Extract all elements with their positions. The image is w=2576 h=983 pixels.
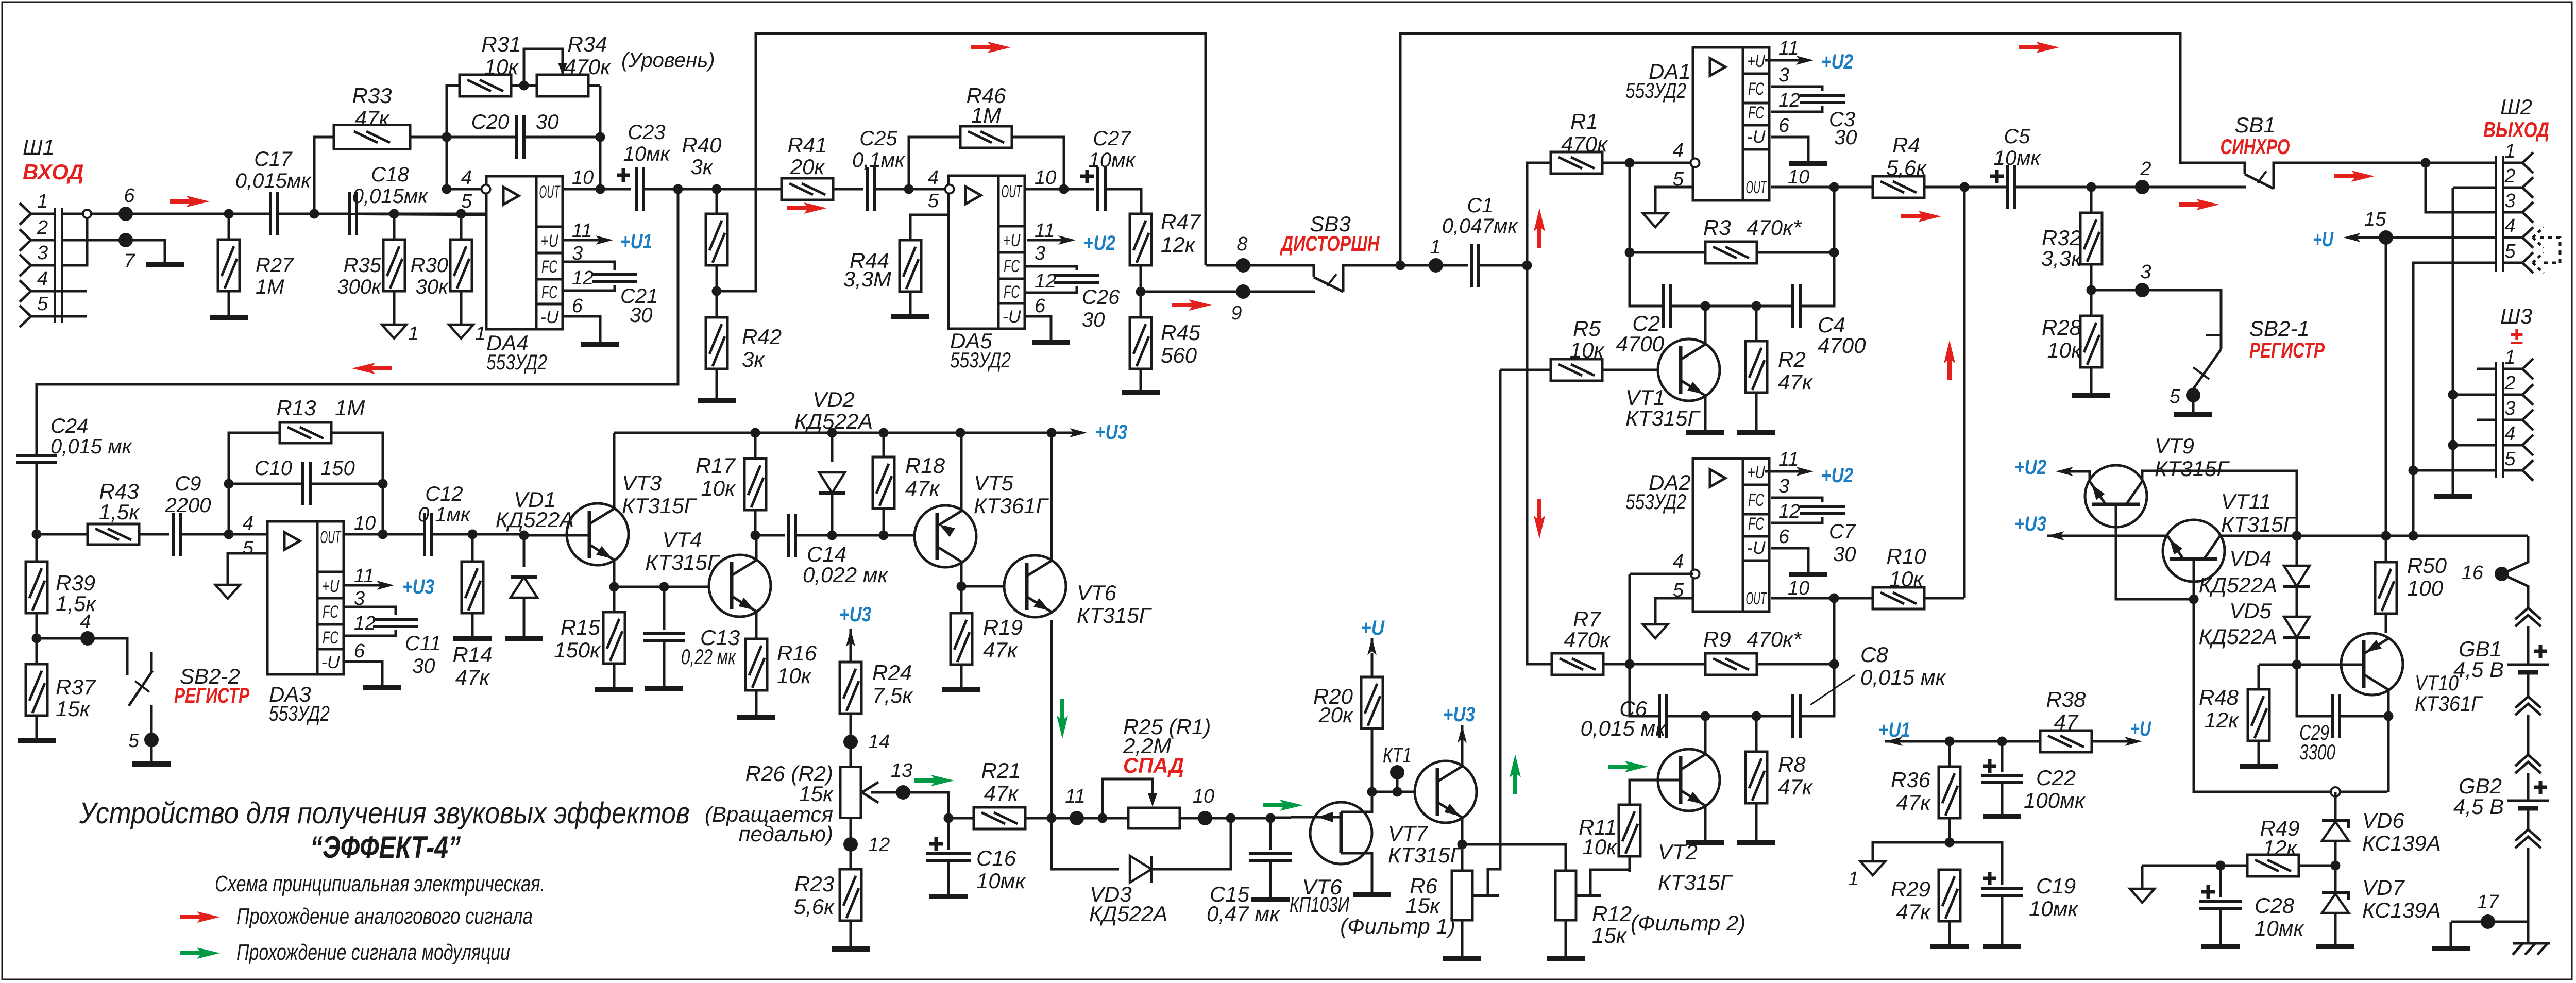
svg-text:VD2: VD2 bbox=[812, 387, 855, 412]
capacitor C15 bbox=[1269, 818, 1272, 850]
node R32 bbox=[2087, 182, 2096, 192]
resistor R38 bbox=[2040, 731, 2092, 752]
svg-text:C20: C20 bbox=[471, 111, 509, 133]
svg-text:СПАД: СПАД bbox=[1123, 753, 1184, 777]
svg-text:5: 5 bbox=[243, 537, 254, 559]
R34 wiper bbox=[524, 49, 563, 86]
node 6 bbox=[118, 207, 133, 221]
R6 gate electrode bbox=[1487, 868, 1489, 894]
svg-text:R1: R1 bbox=[1570, 109, 1598, 133]
wire to C19 bbox=[1950, 842, 2002, 885]
svg-text:470к: 470к bbox=[564, 55, 612, 79]
node C22 top bbox=[1997, 737, 2007, 747]
svg-text:FC: FC bbox=[541, 283, 557, 302]
wire pins 1-3 strap bbox=[2426, 163, 2496, 212]
svg-text:R13: R13 bbox=[276, 396, 316, 420]
op-amp DA1 bbox=[1693, 47, 1769, 200]
svg-text:5: 5 bbox=[2170, 386, 2181, 408]
ground R27 bbox=[210, 315, 248, 320]
svg-text:0,22 мк: 0,22 мк bbox=[681, 645, 737, 669]
svg-text:47к: 47к bbox=[983, 638, 1019, 662]
ground triangle R35 bbox=[382, 325, 406, 338]
node VD6-VD7-R49 bbox=[2331, 861, 2341, 871]
node R14 bbox=[468, 530, 478, 539]
capacitor C20 bbox=[447, 136, 517, 139]
ground triangle R49 bbox=[2130, 889, 2155, 903]
ground DA5 bbox=[1032, 340, 1070, 345]
svg-text:4: 4 bbox=[37, 268, 48, 290]
signal arrow green to VT2 bbox=[1608, 765, 1633, 769]
diode VD5 bbox=[2284, 617, 2310, 637]
resistor R13 bbox=[280, 422, 331, 443]
switch SB3 output side bbox=[1343, 265, 1436, 292]
ground VD7 bbox=[2316, 944, 2354, 949]
wire C15 to VT6 gate bbox=[1270, 817, 1291, 819]
svg-text:47к: 47к bbox=[1778, 370, 1814, 394]
DA5 pin 10 output bbox=[1025, 188, 1094, 191]
svg-text:FC: FC bbox=[541, 257, 557, 277]
svg-text:4: 4 bbox=[928, 167, 939, 189]
svg-text:5: 5 bbox=[461, 191, 472, 212]
svg-text:20к: 20к bbox=[1318, 703, 1354, 727]
svg-text:R33: R33 bbox=[352, 83, 392, 108]
svg-text:КД522А: КД522А bbox=[1089, 902, 1167, 926]
resistor R4 bbox=[1873, 176, 1924, 198]
stub Ш3 pin1 bbox=[2477, 368, 2496, 370]
wire Ш3 pin5 bbox=[2413, 469, 2496, 472]
svg-text:10: 10 bbox=[1193, 786, 1214, 807]
svg-text:C1: C1 bbox=[1467, 194, 1493, 217]
svg-text:FC: FC bbox=[323, 602, 338, 622]
VT5 emitter bbox=[960, 433, 963, 511]
svg-text:6: 6 bbox=[1778, 115, 1790, 137]
svg-text:4: 4 bbox=[243, 513, 253, 534]
VT3 collector riser bbox=[613, 433, 616, 508]
capacitor C4 bbox=[1793, 284, 1800, 328]
ground triangle R36 bbox=[1860, 861, 1885, 875]
ground wire 17 bbox=[2450, 922, 2452, 946]
svg-text:30: 30 bbox=[630, 304, 653, 327]
svg-text:3: 3 bbox=[2140, 261, 2151, 283]
svg-text:R28: R28 bbox=[2042, 315, 2082, 340]
ground C28 bbox=[2201, 944, 2240, 949]
node VD5-R48-VT10 base bbox=[2292, 660, 2302, 670]
svg-text:1: 1 bbox=[37, 191, 48, 212]
node VT3-R15 bbox=[609, 582, 619, 592]
node 3 bbox=[2135, 283, 2149, 297]
resistor R24 bbox=[840, 662, 861, 714]
resistor R37 bbox=[26, 664, 47, 716]
svg-text:Устройство для получения звуко: Устройство для получения звуковых эффект… bbox=[79, 796, 690, 830]
svg-text:0,1мк: 0,1мк bbox=[418, 503, 471, 526]
svg-text:педалью): педалью) bbox=[739, 822, 833, 846]
svg-text:14: 14 bbox=[868, 731, 890, 753]
svg-text:1: 1 bbox=[475, 323, 486, 345]
capacitor C29 bbox=[2297, 665, 2332, 716]
svg-text:-U: -U bbox=[1747, 127, 1766, 147]
wire net 8 bbox=[1206, 265, 1314, 277]
svg-text:17: 17 bbox=[2477, 891, 2500, 913]
svg-text:4: 4 bbox=[2504, 423, 2515, 445]
wire to R43 bbox=[37, 533, 88, 536]
svg-text:+U: +U bbox=[2313, 228, 2334, 251]
svg-text:1: 1 bbox=[2504, 347, 2515, 368]
svg-text:47к: 47к bbox=[1896, 900, 1931, 924]
riser to row 1537 bbox=[2194, 599, 2387, 792]
resistor R28 bbox=[2080, 316, 2102, 367]
ground R8 bbox=[1737, 840, 1775, 845]
resistor R16 bbox=[745, 639, 767, 690]
capacitor C26 bbox=[1054, 276, 1099, 283]
capacitor C25 bbox=[867, 167, 874, 211]
ground R37 bbox=[18, 738, 56, 743]
diode VD2 bbox=[831, 433, 834, 462]
svg-text:3: 3 bbox=[1778, 476, 1789, 497]
wire net 9 bbox=[1141, 291, 1315, 293]
node VT5 emitter rail bbox=[956, 428, 965, 438]
wire Ш3 pin2 bbox=[2453, 394, 2496, 396]
node 3 junction bbox=[2087, 285, 2096, 295]
battery chevrons top bbox=[2515, 608, 2541, 626]
wire VT3 emitter row bbox=[614, 586, 732, 588]
VT3 emitter bbox=[613, 560, 616, 587]
ground triangle DA1 bbox=[1643, 213, 1668, 227]
node 5 SB2-1 bbox=[2186, 388, 2200, 402]
resistor R14 bbox=[471, 534, 474, 561]
svg-text:R18: R18 bbox=[905, 453, 945, 478]
node VT6k collector rail bbox=[1047, 428, 1057, 438]
node VD2 bottom bbox=[827, 531, 837, 540]
wire R13 loop top bbox=[229, 433, 280, 443]
svg-text:2: 2 bbox=[2140, 158, 2151, 180]
svg-text:0,015 мк: 0,015 мк bbox=[50, 435, 133, 458]
svg-text:КТ315Г: КТ315Г bbox=[645, 550, 720, 574]
node DA2 out bbox=[1829, 594, 1839, 603]
node C2-VT1 bbox=[1701, 301, 1710, 311]
svg-text:РЕГИСТР: РЕГИСТР bbox=[2249, 338, 2325, 362]
legend arrow red bbox=[180, 915, 205, 919]
svg-text:R41: R41 bbox=[787, 133, 827, 157]
svg-text:5: 5 bbox=[2504, 448, 2516, 470]
svg-text:4: 4 bbox=[1673, 140, 1684, 161]
svg-text:КС139А: КС139А bbox=[2362, 831, 2441, 855]
svg-text:150к: 150к bbox=[554, 638, 601, 662]
node KT1 bottom bbox=[1367, 787, 1377, 797]
svg-text:100мк: 100мк bbox=[2024, 788, 2086, 812]
svg-text:КТ315Г: КТ315Г bbox=[1625, 406, 1701, 430]
svg-text:+U2: +U2 bbox=[2014, 456, 2046, 479]
svg-text:+U: +U bbox=[2130, 718, 2151, 740]
signal arrow R10 riser bbox=[1947, 355, 1952, 380]
svg-text:6: 6 bbox=[572, 295, 583, 317]
svg-text:+U1: +U1 bbox=[620, 230, 652, 253]
diode VD4 bbox=[2296, 536, 2298, 566]
wire Ш2 pin4 +U bbox=[2386, 236, 2496, 239]
resistor R35 bbox=[393, 214, 396, 240]
resistor R49 bbox=[2221, 865, 2335, 867]
node R21 left bbox=[944, 813, 954, 823]
ground R16 bbox=[737, 715, 775, 720]
svg-text:КС139А: КС139А bbox=[2362, 898, 2441, 922]
svg-text:R27: R27 bbox=[256, 254, 294, 277]
node 10 bbox=[1180, 817, 1270, 820]
svg-text:560: 560 bbox=[1161, 343, 1197, 367]
resistor R19 bbox=[960, 586, 963, 613]
svg-text:47: 47 bbox=[2054, 710, 2079, 734]
node C29 right bbox=[2384, 711, 2394, 721]
node R36 top bbox=[1945, 737, 1955, 747]
svg-text:-U: -U bbox=[1747, 538, 1766, 558]
svg-text:15к: 15к bbox=[1592, 923, 1628, 947]
node R9 right bbox=[1829, 659, 1839, 669]
svg-text:+U2: +U2 bbox=[1821, 464, 1853, 487]
+U1 row bbox=[1885, 740, 2040, 743]
svg-text:30: 30 bbox=[1834, 126, 1857, 149]
svg-text:15: 15 bbox=[2364, 209, 2386, 230]
DA1 pin 4 bbox=[1691, 159, 1700, 167]
wire KT1 row to VT7 bbox=[1372, 791, 1437, 793]
svg-text:11: 11 bbox=[354, 565, 374, 587]
svg-text:FC: FC bbox=[1004, 282, 1020, 302]
ground R15 bbox=[595, 687, 633, 692]
node R36 bottom bbox=[1945, 838, 1955, 848]
VT6k collector wire bbox=[1050, 433, 1053, 562]
node 2 bbox=[2135, 180, 2149, 194]
feedback R46 bbox=[909, 137, 960, 189]
resistor R3 bbox=[1705, 242, 1757, 263]
VT1 emitter bbox=[1704, 395, 1707, 430]
stub Ш3 pin3 bbox=[2477, 419, 2496, 421]
potentiometer R34 bbox=[537, 75, 588, 96]
svg-text:VD7: VD7 bbox=[2362, 875, 2405, 900]
svg-text:Ш1: Ш1 bbox=[23, 135, 55, 159]
svg-text:R10: R10 bbox=[1886, 544, 1926, 568]
svg-text:R24: R24 bbox=[872, 660, 912, 685]
svg-text:КД522А: КД522А bbox=[2199, 624, 2277, 649]
node R17-C14 bbox=[751, 531, 760, 540]
svg-text:1: 1 bbox=[1848, 868, 1859, 890]
resistor R30 bbox=[456, 209, 466, 219]
svg-text:4: 4 bbox=[80, 611, 91, 633]
svg-text:R38: R38 bbox=[2046, 687, 2086, 711]
potentiometer R25 bbox=[1128, 808, 1180, 828]
signal arrow line A bbox=[971, 45, 995, 49]
riser C1 up to R1 bbox=[1527, 163, 1551, 265]
signal arrow after R4 bbox=[1901, 214, 1926, 218]
resistor R21 bbox=[974, 807, 1025, 829]
switch SB3 blade bbox=[1314, 277, 1343, 292]
VT2 emitter bbox=[1704, 805, 1707, 840]
node R18 rail bbox=[879, 428, 889, 438]
ground DA4 bbox=[581, 342, 619, 347]
svg-text:6: 6 bbox=[354, 640, 365, 662]
label +U3 left arrow bbox=[2057, 535, 2078, 537]
potentiometer R26 bbox=[840, 767, 861, 818]
svg-text:VD6: VD6 bbox=[2362, 808, 2404, 833]
svg-text:FC: FC bbox=[1748, 103, 1764, 123]
green arrow down VT6 bbox=[1060, 699, 1064, 723]
svg-text:30: 30 bbox=[1082, 309, 1105, 331]
svg-text:КД522А: КД522А bbox=[2199, 573, 2277, 597]
node feedback riser bbox=[673, 184, 683, 194]
riser +U node 15 bbox=[2385, 238, 2387, 536]
ground VD1 bbox=[505, 636, 543, 641]
node C4-R2 bbox=[1752, 301, 1761, 311]
lower loop C6 C8 bbox=[1630, 664, 1659, 716]
ground R29 bbox=[1930, 944, 1969, 949]
svg-text:11: 11 bbox=[1035, 220, 1055, 242]
svg-text:0,47 мк: 0,47 мк bbox=[1207, 902, 1281, 926]
node VD3 right bbox=[1226, 813, 1236, 823]
open circle node bbox=[2331, 787, 2340, 796]
R25 wiper arm bbox=[1103, 779, 1153, 818]
svg-text:0,015 мк: 0,015 мк bbox=[1860, 665, 1947, 689]
capacitor C19 bbox=[1983, 872, 1996, 885]
svg-text:12: 12 bbox=[1778, 90, 1800, 111]
svg-text:47к: 47к bbox=[1896, 790, 1931, 815]
svg-text:10: 10 bbox=[1788, 578, 1809, 599]
svg-text:11: 11 bbox=[1065, 786, 1085, 807]
ground C19 bbox=[1983, 944, 2021, 949]
switch SB1 output bbox=[2274, 163, 2496, 189]
resistor R46 bbox=[960, 126, 1012, 148]
svg-text:47к: 47к bbox=[1778, 775, 1814, 799]
svg-text:C17: C17 bbox=[254, 148, 293, 171]
svg-text:Прохождение сигнала модуляции: Прохождение сигнала модуляции bbox=[236, 940, 510, 965]
svg-text:R45: R45 bbox=[1161, 320, 1201, 345]
capacitor C13 bbox=[663, 587, 666, 630]
svg-text:7,5к: 7,5к bbox=[872, 683, 913, 707]
svg-text:R30: R30 bbox=[411, 254, 448, 277]
+U3 rail arrow bbox=[1072, 432, 1077, 434]
svg-text:КП103И: КП103И bbox=[1290, 892, 1350, 917]
+U arrow right bbox=[2101, 740, 2132, 743]
battery link node 16 bbox=[2502, 536, 2528, 608]
ground triangle DA3 bbox=[215, 585, 240, 599]
node VT11 base bbox=[2189, 595, 2199, 604]
svg-text:10к: 10к bbox=[1570, 338, 1605, 362]
resistor R23 bbox=[840, 869, 861, 921]
VT11 base down bbox=[2193, 559, 2195, 599]
resistor R27 bbox=[224, 209, 234, 219]
svg-text:+U3: +U3 bbox=[402, 575, 434, 598]
capacitor C12 bbox=[425, 513, 432, 556]
resistor R20 bbox=[1361, 677, 1383, 728]
node C15 top bbox=[1266, 813, 1276, 823]
svg-text:ВХОД: ВХОД bbox=[23, 160, 84, 184]
svg-text:VT3: VT3 bbox=[622, 471, 662, 495]
node Ш2 pin1 bbox=[2421, 158, 2431, 168]
svg-text:47к: 47к bbox=[355, 106, 391, 130]
resistor R18 bbox=[883, 433, 885, 457]
connector Ш1 body bbox=[54, 208, 56, 323]
wire node 4 bbox=[37, 638, 127, 675]
svg-text:3к: 3к bbox=[742, 347, 765, 371]
svg-text:470к*: 470к* bbox=[1747, 627, 1802, 651]
svg-text:12: 12 bbox=[1778, 501, 1800, 522]
svg-text:0,015мк: 0,015мк bbox=[235, 170, 312, 192]
+U arrow R20 bbox=[1371, 638, 1374, 648]
node DA3 out bbox=[378, 530, 388, 539]
signal arrow bbox=[170, 199, 194, 204]
ground triangle DA2 bbox=[1643, 624, 1668, 638]
node C1 out bbox=[1522, 261, 1532, 270]
capacitor C10 bbox=[229, 483, 303, 485]
capacitor C23 bbox=[617, 168, 630, 182]
wire R12 top bbox=[1462, 844, 1566, 871]
svg-text:10мк: 10мк bbox=[1089, 149, 1137, 172]
svg-text:КТ1: КТ1 bbox=[1383, 743, 1412, 767]
capacitor C27 bbox=[1080, 170, 1094, 183]
svg-text:5: 5 bbox=[128, 730, 140, 752]
svg-text:30: 30 bbox=[1833, 543, 1856, 566]
svg-text:7: 7 bbox=[124, 250, 135, 272]
svg-text:470к: 470к bbox=[1561, 132, 1608, 156]
ground C15 bbox=[1251, 897, 1290, 902]
wire to R21 bbox=[948, 817, 974, 820]
svg-text:3: 3 bbox=[2504, 190, 2515, 212]
svg-text:R12: R12 bbox=[1592, 902, 1632, 926]
svg-text:15к: 15к bbox=[56, 697, 91, 721]
VT10 collector bbox=[2387, 690, 2390, 792]
node pin5 riser bbox=[2409, 531, 2418, 541]
svg-text:9: 9 bbox=[1231, 302, 1242, 324]
ground R19 bbox=[942, 687, 980, 692]
signal arrow feedback bbox=[367, 366, 392, 370]
svg-text:R21: R21 bbox=[981, 758, 1021, 783]
svg-text:2200: 2200 bbox=[165, 494, 211, 517]
node R46 left bbox=[904, 184, 914, 194]
svg-text:Схема принципиальная электриче: Схема принципиальная электрическая. bbox=[215, 871, 545, 896]
resistor R43 bbox=[88, 524, 139, 545]
svg-text:2: 2 bbox=[2504, 165, 2515, 187]
wire VT10 base row bbox=[2259, 664, 2364, 666]
VT9 emitter to +U2 bbox=[2065, 471, 2090, 481]
signal arrow R41 bbox=[787, 206, 811, 210]
battery chevrons GB1 bottom bbox=[2515, 697, 2541, 715]
svg-text:3: 3 bbox=[1778, 64, 1789, 86]
svg-text:11: 11 bbox=[1778, 449, 1799, 470]
svg-text:OUT: OUT bbox=[1746, 589, 1767, 608]
svg-text:1: 1 bbox=[2504, 141, 2515, 162]
wire DA1 out down bbox=[1800, 187, 1834, 306]
node C24-R43 bbox=[32, 530, 42, 539]
ground VT6 bbox=[1353, 892, 1391, 897]
node R25 wiper tie bbox=[1098, 813, 1108, 823]
capacitor C17 bbox=[229, 213, 270, 215]
wire main after C23 bbox=[678, 188, 782, 191]
svg-text:470к*: 470к* bbox=[1747, 215, 1802, 240]
svg-text:КТ315Г: КТ315Г bbox=[1388, 843, 1463, 867]
svg-text:“ЭФФЕКТ-4”: “ЭФФЕКТ-4” bbox=[310, 830, 461, 865]
svg-text:12: 12 bbox=[868, 834, 890, 856]
node 7 and ground bbox=[62, 240, 165, 262]
svg-text:+U: +U bbox=[1748, 52, 1765, 71]
node C8-R8 bbox=[1752, 711, 1761, 721]
node 15 bbox=[2379, 230, 2393, 245]
node R49 left bbox=[2216, 861, 2226, 871]
+U1 arrow bbox=[1895, 740, 1903, 743]
svg-text:3,3к: 3,3к bbox=[2041, 246, 2082, 270]
svg-text:+U3: +U3 bbox=[1095, 421, 1127, 444]
wire C10 right down bbox=[382, 484, 384, 534]
svg-text:C8: C8 bbox=[1860, 642, 1888, 667]
wire DA2 out down bbox=[1833, 598, 1836, 664]
transistor VT1 bbox=[1658, 339, 1720, 401]
node R40-R42 bbox=[712, 286, 722, 296]
capacitor C9 bbox=[174, 513, 181, 556]
wire R3 left bbox=[1630, 163, 1663, 306]
